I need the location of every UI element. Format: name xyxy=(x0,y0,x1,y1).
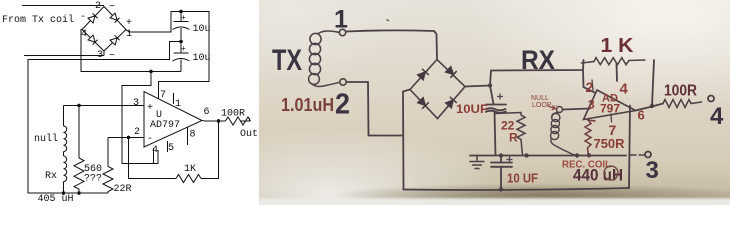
junction dots right xyxy=(488,83,654,191)
svg-text:+: + xyxy=(126,18,132,29)
left computer-drawn schematic xyxy=(0,0,259,205)
TX coil L1 xyxy=(309,31,340,86)
right side wire from output down xyxy=(629,106,630,189)
null loop arrow xyxy=(548,106,555,110)
wire bridge pin1 + to caps top xyxy=(126,12,209,99)
wire 1K right down to output xyxy=(652,60,654,106)
pin 5 stub xyxy=(167,141,169,152)
svg-text:10u: 10u xyxy=(193,53,211,64)
wire bridge left vertex down to bottom rail xyxy=(403,90,410,190)
feedback node down to pin 2 xyxy=(583,70,595,93)
V- wire from junction to opamp pins 4/5 xyxy=(122,72,158,164)
coil lead xyxy=(63,106,65,127)
svg-text:~: ~ xyxy=(109,51,115,62)
svg-text:+: + xyxy=(181,14,186,23)
svg-text:AD797: AD797 xyxy=(150,120,180,131)
svg-text:RX: RX xyxy=(521,45,555,75)
junction dots xyxy=(62,10,221,195)
svg-text:NULL: NULL xyxy=(531,95,549,102)
diode bottom-left xyxy=(88,35,98,45)
diode bottom-right xyxy=(110,35,120,45)
svg-text:100R: 100R xyxy=(221,109,245,120)
svg-text:1: 1 xyxy=(334,6,348,34)
wire bridge pin4 - down and right to cap C2 bottom xyxy=(81,30,181,72)
diode bridge diamond D1-D4 xyxy=(82,7,126,52)
dark red labels xyxy=(281,35,697,186)
wire Tx top to bridge pin 2 xyxy=(22,5,104,7)
terminal 2 circle xyxy=(340,79,346,85)
resistor 22R xyxy=(495,113,525,156)
bottom rail xyxy=(404,188,630,190)
resistor 22R zigzag xyxy=(103,164,113,193)
capacitor C 10UF upper xyxy=(486,86,507,156)
resistor 1K xyxy=(582,58,645,65)
feedback wire from -input dot down xyxy=(129,138,177,179)
diode top-left xyxy=(88,13,98,23)
bridge rectifier diamond xyxy=(410,60,465,119)
svg-text:3: 3 xyxy=(588,98,595,112)
capacitor C1 10u xyxy=(174,12,189,22)
terminal 3 circle xyxy=(645,152,651,158)
pin4 stub xyxy=(153,148,155,164)
svg-text:405 uH: 405 uH xyxy=(38,194,74,205)
svg-text:-: - xyxy=(147,134,153,145)
svg-text:1K: 1K xyxy=(184,164,196,175)
svg-text:2: 2 xyxy=(335,89,350,121)
svg-text:+: + xyxy=(147,103,153,114)
svg-text:Out: Out xyxy=(240,129,258,140)
wire terminal1 to bridge top xyxy=(346,30,437,59)
op-amp U1 AD797 triangle xyxy=(144,92,202,148)
bridge diode arrows xyxy=(418,66,457,108)
svg-text:2: 2 xyxy=(95,1,101,12)
pin2 tick xyxy=(592,80,593,90)
svg-text:7: 7 xyxy=(160,90,166,101)
wire -input to 22R xyxy=(107,138,109,165)
svg-text:10UF: 10UF xyxy=(456,102,488,116)
wire terminal2 to bridge via U xyxy=(347,82,404,136)
mid wire row xyxy=(470,155,626,157)
svg-text:6: 6 xyxy=(638,108,645,123)
cap plus marks and paper speck xyxy=(387,20,513,163)
pin 1 stub xyxy=(173,93,175,104)
inductor null/Rx coil xyxy=(64,126,67,182)
feedback wire to output xyxy=(201,121,219,179)
svg-text:TX: TX xyxy=(272,44,302,77)
svg-text:???: ??? xyxy=(84,174,102,185)
diode top-right xyxy=(110,13,120,23)
svg-text:4: 4 xyxy=(81,29,87,40)
svg-text:-: - xyxy=(80,12,86,23)
svg-text:LOOP→: LOOP→ xyxy=(532,102,558,109)
mid rail wire from cap junction to left rail and bottom rail xyxy=(28,42,181,194)
svg-text:null: null xyxy=(34,133,58,145)
text labels left schematic xyxy=(2,1,258,205)
svg-text:~: ~ xyxy=(109,2,115,13)
wire bridge + to dot xyxy=(465,86,490,87)
resistor 560 zigzag xyxy=(74,158,84,193)
svg-text:10u: 10u xyxy=(193,24,211,35)
svg-text:2: 2 xyxy=(134,127,140,138)
resistor 560 ??? lead xyxy=(78,106,80,159)
svg-text:4: 4 xyxy=(152,145,158,156)
rec coil loop over 440 xyxy=(604,166,618,180)
svg-text:797: 797 xyxy=(600,102,620,116)
svg-text:10 UF: 10 UF xyxy=(507,171,538,186)
svg-text:1.01uH: 1.01uH xyxy=(281,95,334,115)
svg-text:100R: 100R xyxy=(664,83,697,100)
svg-text:3: 3 xyxy=(97,50,103,61)
pin 7 stub xyxy=(158,89,160,98)
terminal 4 circle xyxy=(708,96,714,102)
wire opamp +input to coil top xyxy=(64,105,145,107)
svg-text:3: 3 xyxy=(133,98,139,109)
dark bold labels xyxy=(272,6,724,185)
svg-text:From Tx coil: From Tx coil xyxy=(2,14,74,26)
pin 8 stub xyxy=(186,128,188,146)
svg-text:+: + xyxy=(181,45,186,54)
dashes to terminal 3 xyxy=(630,154,644,156)
resistor 100R zigzag xyxy=(226,117,251,125)
capacitor C 10UF lower xyxy=(491,156,512,190)
svg-text:6: 6 xyxy=(204,107,210,118)
pin7 tick xyxy=(610,114,613,122)
svg-text:1 K: 1 K xyxy=(601,35,635,57)
svg-text:8: 8 xyxy=(190,130,196,141)
svg-text:Rx: Rx xyxy=(45,171,57,182)
terminal 1 circle xyxy=(339,29,345,35)
svg-text:1: 1 xyxy=(126,29,132,40)
svg-text:3: 3 xyxy=(646,157,659,184)
resistor 1K zigzag xyxy=(176,175,201,183)
svg-text:750R: 750R xyxy=(594,136,626,151)
+ rail up and right xyxy=(490,60,584,86)
svg-text:1: 1 xyxy=(175,99,181,110)
capacitor C2 10u xyxy=(174,42,189,54)
svg-text:4: 4 xyxy=(710,103,724,130)
resistor 750R xyxy=(585,120,595,156)
opamp triangle AD797 xyxy=(584,90,636,120)
output wire pin 6 xyxy=(202,120,226,123)
resistor 100R xyxy=(663,100,702,108)
ground symbol xyxy=(470,156,484,169)
svg-text:2: 2 xyxy=(586,79,594,95)
svg-text:R: R xyxy=(509,131,518,145)
wire Tx bottom to bridge pin 3 xyxy=(24,51,104,56)
svg-text:22R: 22R xyxy=(114,184,132,195)
svg-text:4: 4 xyxy=(620,81,629,98)
null/rec coil winding xyxy=(551,113,578,156)
pin4 tick wire up xyxy=(616,64,619,82)
output wire xyxy=(636,104,664,111)
svg-text:5: 5 xyxy=(168,143,174,154)
opamp -input wire xyxy=(108,137,144,139)
pin3 wire and circle xyxy=(563,109,590,110)
right hand-drawn photo schematic xyxy=(259,0,730,205)
